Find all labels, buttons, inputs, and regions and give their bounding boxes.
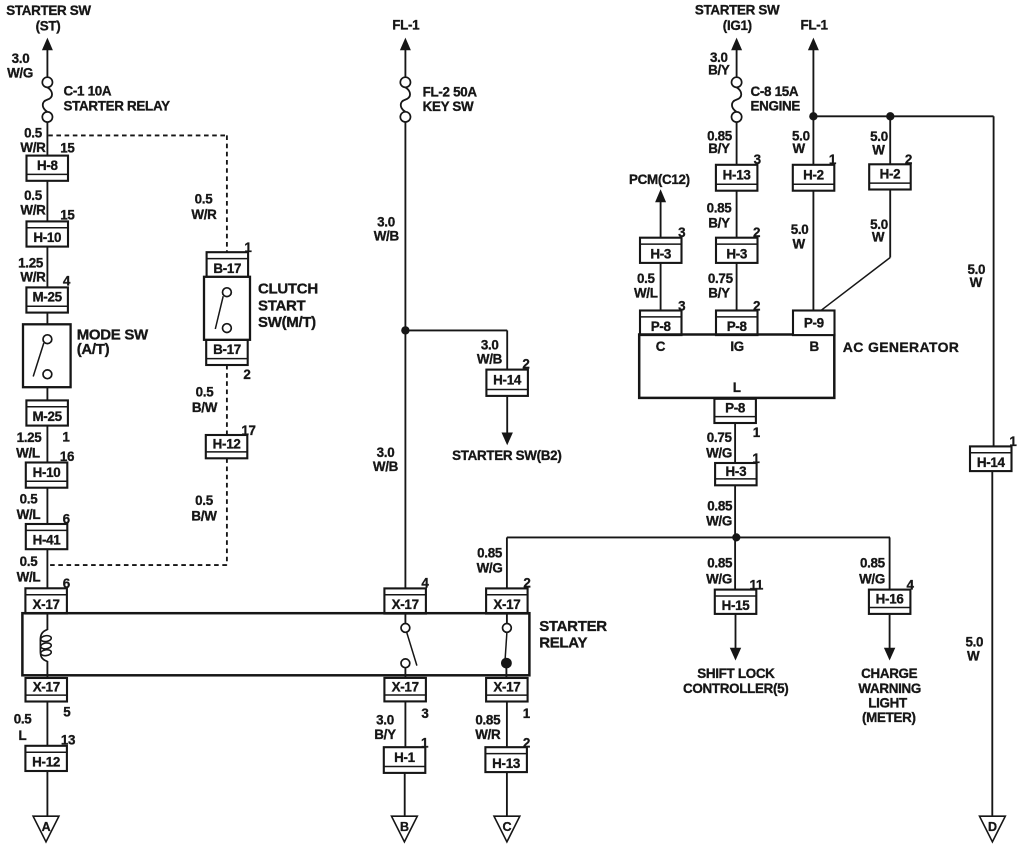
svg-text:C: C [656, 339, 666, 354]
svg-text:3: 3 [421, 706, 428, 721]
svg-text:SHIFT LOCK: SHIFT LOCK [697, 666, 775, 681]
svg-text:W/B: W/B [373, 459, 399, 474]
svg-text:H-12: H-12 [32, 755, 60, 770]
svg-text:1: 1 [829, 152, 837, 167]
svg-text:W/B: W/B [477, 351, 503, 366]
svg-text:1: 1 [62, 430, 70, 445]
svg-text:0.85: 0.85 [707, 498, 733, 513]
svg-text:M-25: M-25 [32, 290, 62, 305]
svg-text:CHARGE: CHARGE [861, 666, 918, 681]
svg-text:5.0: 5.0 [965, 635, 983, 650]
svg-text:0.5: 0.5 [195, 192, 214, 207]
svg-text:B/Y: B/Y [708, 216, 730, 231]
svg-text:2: 2 [523, 736, 530, 751]
svg-text:W/G: W/G [477, 560, 503, 575]
svg-text:PCM(C12): PCM(C12) [629, 172, 690, 187]
svg-text:1.25: 1.25 [18, 255, 44, 270]
svg-text:W/R: W/R [20, 270, 46, 285]
svg-text:H-15: H-15 [722, 598, 751, 613]
svg-text:CLUTCH: CLUTCH [258, 281, 318, 298]
svg-text:X-17: X-17 [392, 679, 419, 694]
svg-text:B/W: B/W [191, 508, 217, 523]
svg-text:W: W [967, 649, 980, 664]
svg-text:1: 1 [244, 240, 252, 255]
svg-text:SW(M/T): SW(M/T) [258, 314, 316, 331]
svg-text:3.0: 3.0 [12, 51, 30, 66]
svg-text:0.5: 0.5 [195, 493, 214, 508]
svg-text:(METER): (METER) [862, 710, 916, 725]
svg-text:17: 17 [241, 423, 255, 438]
svg-text:0.75: 0.75 [708, 271, 734, 286]
svg-text:H-14: H-14 [977, 455, 1006, 470]
svg-text:P-8: P-8 [727, 319, 748, 334]
svg-text:B/Y: B/Y [708, 63, 730, 78]
svg-text:L: L [733, 380, 741, 395]
svg-text:3.0: 3.0 [377, 445, 395, 460]
svg-text:0.5: 0.5 [24, 188, 43, 203]
svg-text:AC GENERATOR: AC GENERATOR [843, 339, 959, 355]
svg-text:ENGINE: ENGINE [751, 99, 801, 114]
svg-text:4: 4 [421, 576, 429, 591]
svg-text:H-8: H-8 [37, 158, 59, 173]
svg-text:H-13: H-13 [723, 168, 751, 183]
svg-text:RELAY: RELAY [539, 635, 587, 652]
svg-text:W: W [970, 275, 983, 290]
svg-text:0.5: 0.5 [196, 384, 215, 399]
svg-text:W: W [793, 237, 806, 252]
svg-text:IG: IG [730, 339, 744, 354]
svg-text:0.85: 0.85 [475, 712, 501, 727]
svg-text:START: START [258, 297, 306, 314]
svg-text:H-10: H-10 [33, 230, 61, 245]
svg-text:3.0: 3.0 [377, 215, 395, 230]
svg-text:0.5: 0.5 [20, 492, 39, 507]
svg-text:W/B: W/B [374, 229, 400, 244]
svg-text:STARTER RELAY: STARTER RELAY [64, 99, 171, 114]
svg-text:STARTER: STARTER [539, 618, 607, 635]
svg-text:2: 2 [905, 152, 912, 167]
svg-text:W/G: W/G [706, 514, 732, 529]
svg-text:C-1 10A: C-1 10A [64, 84, 112, 99]
svg-text:W/R: W/R [20, 202, 46, 217]
svg-text:B/Y: B/Y [374, 727, 396, 742]
svg-text:4: 4 [907, 578, 915, 593]
svg-text:P-8: P-8 [725, 401, 746, 416]
svg-text:W: W [793, 141, 806, 156]
svg-text:1: 1 [523, 706, 531, 721]
svg-text:FL-1: FL-1 [392, 18, 420, 33]
svg-text:1: 1 [752, 451, 760, 466]
svg-text:W/L: W/L [16, 446, 40, 461]
svg-text:W/G: W/G [706, 571, 732, 586]
svg-text:WARNING: WARNING [858, 681, 921, 696]
svg-text:(ST): (ST) [36, 19, 61, 34]
svg-text:STARTER SW: STARTER SW [695, 3, 780, 18]
svg-text:0.85: 0.85 [477, 546, 503, 561]
svg-text:W/R: W/R [191, 207, 217, 222]
svg-text:(A/T): (A/T) [77, 341, 110, 358]
svg-text:W/R: W/R [20, 140, 46, 155]
svg-text:C-8 15A: C-8 15A [751, 84, 799, 99]
svg-text:W: W [872, 143, 885, 158]
svg-text:W: W [872, 230, 885, 245]
svg-text:X-17: X-17 [33, 679, 60, 694]
svg-text:STARTER SW(B2): STARTER SW(B2) [452, 448, 561, 463]
svg-text:H-10: H-10 [33, 465, 61, 480]
svg-text:W/G: W/G [706, 446, 732, 461]
svg-text:P-9: P-9 [804, 316, 824, 331]
svg-text:C: C [503, 820, 512, 834]
svg-text:2: 2 [523, 576, 530, 591]
svg-text:H-3: H-3 [726, 464, 747, 479]
svg-text:11: 11 [750, 578, 764, 593]
svg-text:H-1: H-1 [394, 750, 416, 765]
svg-text:H-14: H-14 [493, 372, 522, 387]
svg-text:2: 2 [753, 298, 760, 313]
svg-text:W/L: W/L [17, 570, 41, 585]
svg-text:W/G: W/G [7, 66, 33, 81]
svg-text:H-13: H-13 [492, 756, 520, 771]
svg-text:L: L [18, 728, 26, 743]
svg-text:0.5: 0.5 [20, 554, 39, 569]
svg-text:3: 3 [678, 225, 685, 240]
svg-text:0.75: 0.75 [707, 430, 733, 445]
svg-text:15: 15 [60, 208, 75, 223]
svg-text:3: 3 [678, 298, 685, 313]
svg-text:X-17: X-17 [493, 597, 520, 612]
svg-text:H-3: H-3 [650, 246, 671, 261]
svg-text:0.5: 0.5 [14, 712, 33, 727]
svg-text:0.5: 0.5 [24, 125, 43, 140]
svg-text:(IG1): (IG1) [723, 18, 752, 33]
svg-text:5: 5 [63, 704, 71, 719]
svg-text:16: 16 [60, 449, 74, 464]
svg-text:X-17: X-17 [392, 597, 419, 612]
svg-text:KEY SW: KEY SW [423, 99, 474, 114]
svg-text:W/L: W/L [634, 286, 658, 301]
svg-text:M-25: M-25 [32, 409, 62, 424]
svg-text:4: 4 [63, 274, 71, 289]
svg-text:STARTER SW: STARTER SW [6, 3, 91, 18]
svg-text:1: 1 [753, 425, 761, 440]
svg-text:A: A [42, 820, 51, 834]
svg-text:H-16: H-16 [876, 592, 904, 607]
svg-text:15: 15 [60, 141, 75, 156]
svg-text:W/L: W/L [17, 507, 41, 522]
svg-text:1: 1 [1009, 434, 1017, 449]
svg-text:13: 13 [61, 733, 75, 748]
svg-text:X-17: X-17 [33, 597, 60, 612]
svg-text:D: D [988, 820, 997, 834]
svg-text:5.0: 5.0 [791, 222, 809, 237]
svg-text:W/G: W/G [859, 571, 885, 586]
svg-text:FL-1: FL-1 [801, 18, 829, 33]
svg-text:B/Y: B/Y [708, 286, 730, 301]
svg-text:H-41: H-41 [33, 533, 62, 548]
svg-text:B/W: B/W [192, 400, 218, 415]
svg-text:W/R: W/R [475, 727, 501, 742]
svg-text:6: 6 [63, 512, 70, 527]
svg-text:H-2: H-2 [880, 167, 901, 182]
svg-text:B-17: B-17 [213, 342, 241, 357]
svg-text:B: B [810, 339, 820, 354]
svg-text:0.5: 0.5 [637, 271, 656, 286]
svg-text:2: 2 [522, 356, 529, 371]
svg-text:H-3: H-3 [726, 246, 747, 261]
svg-text:1: 1 [421, 736, 429, 751]
svg-text:FL-2 50A: FL-2 50A [423, 85, 478, 100]
svg-text:2: 2 [243, 367, 250, 382]
svg-text:2: 2 [753, 225, 760, 240]
svg-text:B/Y: B/Y [708, 141, 730, 156]
svg-text:H-12: H-12 [213, 436, 241, 451]
svg-text:LIGHT: LIGHT [868, 696, 908, 711]
svg-text:3: 3 [754, 152, 761, 167]
svg-text:P-8: P-8 [651, 319, 672, 334]
svg-text:6: 6 [63, 576, 70, 591]
svg-text:0.85: 0.85 [707, 200, 733, 215]
svg-text:B-17: B-17 [213, 261, 241, 276]
svg-text:3.0: 3.0 [376, 712, 394, 727]
svg-text:3.0: 3.0 [481, 337, 499, 352]
svg-text:B: B [400, 820, 409, 834]
svg-text:CONTROLLER(5): CONTROLLER(5) [683, 681, 788, 696]
svg-text:X-17: X-17 [493, 679, 520, 694]
svg-text:1.25: 1.25 [17, 430, 43, 445]
svg-text:0.85: 0.85 [860, 556, 886, 571]
svg-text:H-2: H-2 [803, 168, 824, 183]
svg-text:0.85: 0.85 [707, 556, 733, 571]
